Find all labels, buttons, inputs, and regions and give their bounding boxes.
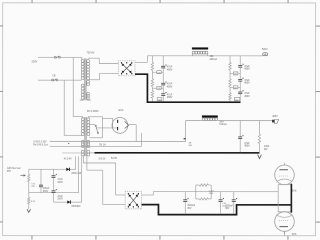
svg-text:MUR2k0: MUR2k0 [72, 206, 82, 208]
svg-text:200V: 200V [57, 182, 63, 184]
svg-text:MUR 2k0: MUR 2k0 [72, 173, 82, 175]
svg-text:CB: CB [52, 76, 56, 78]
svg-text:240: 240 [157, 88, 160, 90]
svg-text:200uF: 200uF [43, 188, 50, 190]
svg-text:240: 240 [157, 72, 160, 74]
svg-text:GC4: GC4 [118, 109, 124, 112]
svg-text:3-15-6.3 15V: 3-15-6.3 15V [33, 142, 47, 144]
svg-text:1M: 1M [234, 87, 237, 89]
svg-text:5V 1A: 5V 1A [99, 144, 106, 147]
svg-text:1M: 1M [234, 74, 237, 76]
svg-text:500V: 500V [262, 48, 268, 51]
svg-text:100: 100 [158, 99, 161, 101]
svg-text:2900uF: 2900uF [225, 205, 233, 207]
svg-text:2900uF: 2900uF [187, 205, 195, 207]
svg-text:720 6V: 720 6V [86, 52, 94, 55]
svg-text:Re-1V6 & Cra: Re-1V6 & Cra [33, 143, 48, 146]
svg-text:C-4T: C-4T [209, 190, 215, 192]
svg-text:GZ5 6a 2 sec: GZ5 6a 2 sec [7, 168, 22, 170]
svg-text:6V6: 6V6 [292, 190, 297, 193]
svg-text:3K 0-305V: 3K 0-305V [87, 110, 99, 113]
svg-text:450V: 450V [167, 86, 173, 89]
svg-text:41.5-6V: 41.5-6V [64, 158, 73, 160]
svg-text:465V: 465V [272, 115, 278, 118]
svg-text:400mA: 400mA [209, 58, 217, 61]
svg-text:6V6: 6V6 [292, 233, 297, 236]
svg-text:35V: 35V [225, 208, 230, 210]
svg-text:450V: 450V [167, 69, 173, 72]
svg-text:200V: 200V [57, 199, 63, 201]
svg-text:230V: 230V [32, 60, 38, 63]
svg-text:450V: 450V [244, 68, 250, 71]
svg-text:140mA: 140mA [219, 123, 227, 126]
svg-text:54-5V: 54-5V [111, 158, 118, 160]
svg-text:35V: 35V [187, 208, 192, 210]
svg-text:450V: 450V [244, 95, 250, 98]
svg-text:250V: 250V [43, 191, 49, 193]
svg-text:450V: 450V [167, 96, 173, 99]
svg-text:45V: 45V [7, 171, 12, 173]
svg-text:100: 100 [235, 99, 238, 101]
svg-text:47uF: 47uF [57, 196, 63, 198]
svg-text:450V: 450V [244, 82, 250, 85]
svg-text:47uF: 47uF [57, 179, 63, 181]
svg-text:450V: 450V [244, 145, 250, 148]
svg-text:5-6.3V: 5-6.3V [99, 158, 106, 160]
svg-text:15H: 15H [209, 193, 213, 195]
